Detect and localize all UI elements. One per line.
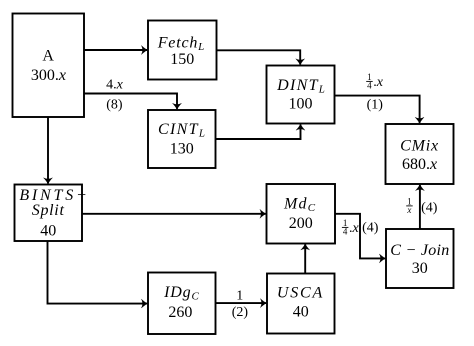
- svg-text:30: 30: [412, 260, 428, 277]
- node CMix box: [386, 124, 454, 184]
- svg-text:4: 4: [343, 227, 348, 237]
- svg-text:A: A: [42, 48, 54, 65]
- svg-text:40: 40: [293, 304, 309, 321]
- wire A to BINTS-Split: [47, 117, 49, 183]
- wire FetchL to DINTL: [217, 50, 301, 64]
- svg-text:CINTL: CINTL: [158, 121, 205, 140]
- wire C-Join to CMix: [419, 185, 421, 229]
- wire USCA to MdC: [304, 244, 306, 273]
- node DINTL box: [267, 66, 335, 124]
- wire DINTL to CMix: [335, 96, 420, 123]
- svg-text:CMix: CMix: [400, 137, 439, 154]
- wire A to CINTL: [85, 94, 178, 109]
- node C-Join box: [386, 229, 454, 288]
- node IDgC box: [148, 273, 216, 335]
- svg-text:.x: .x: [349, 221, 360, 236]
- svg-text:(1): (1): [367, 98, 384, 113]
- svg-text:(4): (4): [362, 221, 379, 236]
- wire A to FetchL: [85, 49, 148, 51]
- svg-text:Split: Split: [32, 202, 65, 219]
- svg-text:C − Join: C − Join: [390, 242, 449, 259]
- svg-text:300.x: 300.x: [31, 67, 66, 84]
- node FetchL box: [148, 21, 217, 80]
- wire BINTS-Split to IDgC: [48, 241, 148, 304]
- node A box: [13, 14, 85, 118]
- label 1/4.x: [342, 218, 360, 237]
- svg-text:100: 100: [289, 96, 313, 113]
- svg-text:680.x: 680.x: [402, 156, 437, 173]
- svg-text:.x: .x: [373, 75, 384, 90]
- svg-text:x: x: [406, 205, 411, 215]
- svg-text:(8): (8): [106, 97, 123, 112]
- node CINTL box: [148, 110, 216, 168]
- svg-text:4.x: 4.x: [106, 78, 124, 93]
- svg-text:40: 40: [40, 222, 56, 239]
- svg-text:200: 200: [289, 215, 313, 232]
- wire CINTL to DINTL: [216, 125, 301, 139]
- svg-text:(2): (2): [232, 305, 249, 320]
- svg-text:USCA: USCA: [277, 285, 324, 302]
- svg-text:DINTL: DINTL: [276, 77, 325, 96]
- node MdC box: [267, 184, 336, 244]
- svg-text:150: 150: [170, 51, 194, 68]
- label 1/x: [406, 196, 413, 215]
- wire BINTS-Split to MdC: [82, 213, 266, 215]
- svg-text:260: 260: [168, 304, 192, 321]
- svg-text:130: 130: [170, 141, 194, 158]
- wire IDgC to USCA: [216, 302, 267, 304]
- node BINTS-Split box: [15, 185, 90, 242]
- svg-text:(4): (4): [421, 201, 438, 216]
- node USCA box: [267, 274, 335, 334]
- wire MdC to C-Join: [335, 214, 385, 259]
- svg-text:4: 4: [367, 81, 372, 91]
- label 1/4.x: [366, 72, 384, 91]
- svg-text:1: 1: [236, 288, 243, 303]
